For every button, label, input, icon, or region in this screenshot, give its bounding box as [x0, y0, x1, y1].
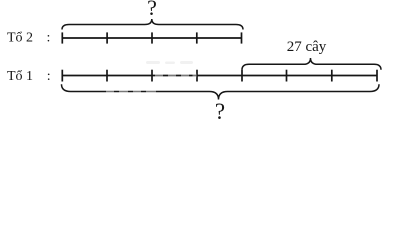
svg-text:?: ?	[215, 99, 225, 124]
brace under To 1 bar	[62, 84, 380, 99]
tick	[61, 32, 63, 43]
svg-text:27 cây: 27 cây	[287, 39, 327, 55]
brace over right part of To 1 bar	[242, 58, 381, 70]
bar To 1 (7 units)	[62, 75, 377, 77]
tick	[151, 32, 153, 43]
svg-text:Tổ 2: Tổ 2	[7, 31, 33, 46]
tick	[376, 70, 378, 82]
tick	[151, 70, 153, 82]
svg-text:Tổ 1: Tổ 1	[7, 69, 33, 84]
tick	[241, 32, 243, 43]
tick	[106, 32, 108, 43]
tick	[196, 32, 198, 43]
tick	[331, 70, 333, 82]
tick	[196, 70, 198, 82]
svg-text::: :	[47, 69, 51, 84]
faint gray smudge between bars	[146, 61, 193, 64]
svg-text:?: ?	[147, 0, 157, 20]
tick	[241, 70, 243, 82]
tick	[286, 70, 288, 82]
tick	[106, 70, 108, 82]
brace over To 2 bar	[62, 19, 243, 30]
svg-text::: :	[47, 31, 51, 46]
tick	[61, 70, 63, 82]
faint watermark remnants (erased watermark lightening the lines)	[106, 74, 197, 94]
bar To 2 (4 units)	[62, 37, 242, 39]
